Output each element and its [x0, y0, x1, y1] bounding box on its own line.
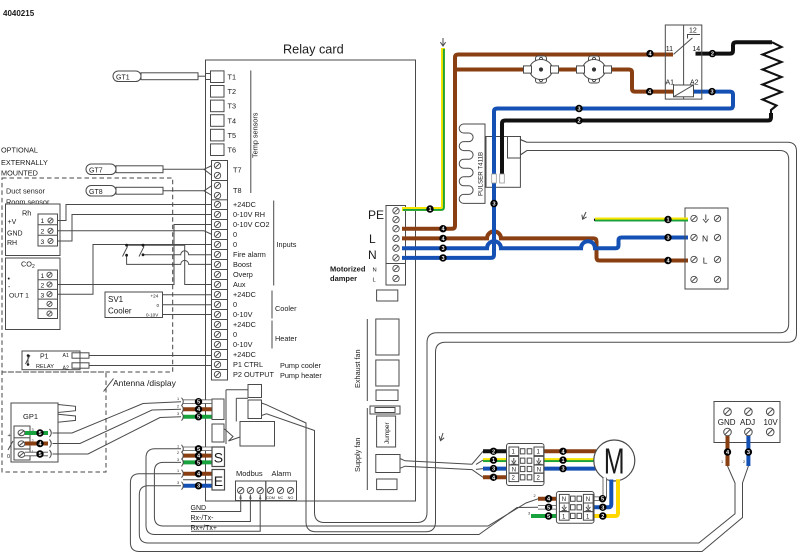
- svg-text:Fire alarm: Fire alarm: [233, 250, 266, 259]
- svg-text:Duct sensor: Duct sensor: [6, 187, 46, 196]
- svg-text:OUT 1: OUT 1: [9, 293, 29, 300]
- svg-text:P2 OUTPUT: P2 OUTPUT: [233, 370, 274, 379]
- svg-text:T5: T5: [228, 131, 237, 140]
- svg-text:+24DC: +24DC: [233, 290, 256, 299]
- svg-text:Aux: Aux: [233, 280, 246, 289]
- svg-text:-: -: [8, 284, 11, 291]
- svg-text:GND: GND: [7, 231, 23, 238]
- svg-text:Pump cooler: Pump cooler: [280, 361, 322, 370]
- svg-text:3: 3: [666, 236, 669, 242]
- svg-text:1: 1: [177, 397, 179, 401]
- svg-text:0-10V CO2: 0-10V CO2: [233, 220, 270, 229]
- svg-text:3: 3: [710, 90, 713, 96]
- svg-text:T7: T7: [233, 166, 242, 175]
- svg-text:0-10V RH: 0-10V RH: [233, 210, 265, 219]
- svg-text:GT8: GT8: [89, 189, 103, 196]
- svg-text:+24DC: +24DC: [233, 200, 256, 209]
- svg-text:3: 3: [492, 202, 495, 208]
- svg-text:RELAY: RELAY: [36, 364, 54, 370]
- svg-text:T1: T1: [228, 73, 237, 82]
- svg-text:3: 3: [528, 512, 530, 516]
- svg-text:Modbus: Modbus: [236, 469, 263, 478]
- svg-text:Pump heater: Pump heater: [280, 371, 322, 380]
- svg-text:3: 3: [197, 484, 200, 490]
- svg-text:2: 2: [577, 119, 580, 125]
- svg-text:Overp: Overp: [233, 270, 253, 279]
- svg-text:2: 2: [743, 460, 745, 464]
- svg-text:12: 12: [689, 28, 697, 35]
- svg-text:MOUNTED: MOUNTED: [1, 169, 38, 178]
- svg-text:Boost: Boost: [233, 260, 252, 269]
- svg-text:0: 0: [157, 303, 160, 308]
- svg-text:A2: A2: [690, 80, 699, 87]
- svg-text:0-10V: 0-10V: [233, 310, 253, 319]
- svg-text:5: 5: [197, 460, 200, 466]
- svg-text:GP1: GP1: [23, 412, 38, 421]
- svg-text:+: +: [8, 433, 11, 439]
- svg-text:damper: damper: [330, 274, 357, 283]
- svg-text:3: 3: [177, 412, 179, 416]
- svg-text:SV1: SV1: [108, 295, 124, 304]
- svg-text:Antenna /display: Antenna /display: [113, 378, 177, 388]
- svg-text:+24DC: +24DC: [233, 350, 256, 359]
- svg-text:0: 0: [233, 300, 237, 309]
- svg-text:T2: T2: [228, 87, 237, 96]
- svg-text:Inputs: Inputs: [277, 240, 297, 249]
- svg-text:1: 1: [177, 444, 179, 448]
- svg-text:2: 2: [601, 514, 604, 520]
- svg-text:A2: A2: [63, 366, 69, 372]
- svg-text:0: 0: [233, 230, 237, 239]
- svg-text:Alarm: Alarm: [272, 469, 292, 478]
- svg-text:Room sensor: Room sensor: [6, 198, 50, 207]
- svg-text:N: N: [562, 497, 566, 503]
- svg-text:1: 1: [721, 460, 723, 464]
- svg-text:2: 2: [534, 494, 536, 498]
- svg-text:3: 3: [177, 458, 179, 462]
- svg-text:Relay card: Relay card: [283, 43, 344, 57]
- svg-text:Heater: Heater: [275, 334, 297, 343]
- svg-text:5: 5: [197, 415, 200, 421]
- svg-text:N: N: [537, 467, 541, 473]
- svg-text:2: 2: [492, 449, 495, 455]
- svg-text:0: 0: [233, 240, 237, 249]
- svg-text:L: L: [703, 256, 708, 266]
- svg-text:P1: P1: [40, 354, 49, 361]
- svg-text:4040215: 4040215: [3, 9, 35, 18]
- svg-text:OPTIONAL: OPTIONAL: [1, 146, 38, 155]
- svg-text:3: 3: [601, 505, 604, 511]
- svg-text:1: 1: [428, 207, 431, 213]
- svg-text:N: N: [512, 467, 516, 473]
- svg-text:PULSER T411B: PULSER T411B: [478, 152, 485, 196]
- svg-text:1: 1: [666, 218, 669, 224]
- svg-text:GND: GND: [191, 505, 207, 512]
- svg-text:Supply fan: Supply fan: [353, 438, 362, 472]
- svg-text:ADJ: ADJ: [740, 418, 755, 427]
- svg-text:•: •: [8, 276, 11, 283]
- svg-text:3: 3: [577, 107, 580, 113]
- svg-text:3: 3: [561, 467, 564, 473]
- svg-text:3: 3: [441, 246, 444, 252]
- svg-text:3: 3: [492, 467, 495, 473]
- svg-text:0-10V: 0-10V: [146, 313, 159, 318]
- svg-text:Motorized: Motorized: [330, 265, 366, 274]
- svg-text:5: 5: [197, 447, 200, 453]
- svg-text:N: N: [702, 234, 708, 244]
- svg-text:2: 2: [41, 283, 45, 290]
- svg-text:1: 1: [561, 458, 564, 464]
- svg-text:P1 CTRL: P1 CTRL: [233, 360, 263, 369]
- svg-text:N: N: [368, 248, 377, 262]
- svg-text:M: M: [604, 441, 625, 482]
- svg-text:0: 0: [7, 454, 10, 460]
- svg-text:+V: +V: [8, 219, 17, 226]
- svg-text:PE: PE: [368, 208, 384, 222]
- svg-text:3: 3: [177, 481, 179, 485]
- svg-text:N: N: [586, 497, 590, 503]
- svg-text:5: 5: [547, 514, 550, 520]
- svg-text:Exhaust fan: Exhaust fan: [353, 349, 362, 388]
- svg-text:1: 1: [41, 218, 45, 225]
- svg-text:2: 2: [711, 52, 714, 58]
- svg-text:2: 2: [41, 229, 45, 236]
- svg-text:11: 11: [666, 46, 673, 53]
- svg-text:GT1: GT1: [116, 75, 130, 82]
- svg-text:T8: T8: [233, 186, 242, 195]
- svg-text:1: 1: [41, 273, 45, 280]
- svg-text:L: L: [373, 278, 377, 284]
- svg-text:S: S: [214, 450, 223, 466]
- svg-text:A1: A1: [63, 353, 69, 359]
- svg-text:3: 3: [747, 450, 750, 456]
- svg-text:NC: NC: [278, 496, 284, 500]
- svg-text:1: 1: [177, 469, 179, 473]
- svg-text:N: N: [373, 268, 377, 274]
- svg-text:GND: GND: [718, 418, 736, 427]
- svg-text:NO: NO: [288, 496, 294, 500]
- svg-text:E: E: [214, 473, 223, 489]
- svg-text:14: 14: [692, 46, 700, 53]
- svg-text:+24DC: +24DC: [233, 320, 256, 329]
- svg-text:0: 0: [233, 330, 237, 339]
- svg-text:COM: COM: [266, 496, 275, 500]
- svg-text:1: 1: [492, 458, 495, 464]
- svg-text:5: 5: [547, 505, 550, 511]
- svg-text:Cooler: Cooler: [275, 304, 297, 313]
- svg-text:T6: T6: [228, 146, 237, 155]
- svg-text:Rx-/Tx-: Rx-/Tx-: [191, 515, 215, 522]
- svg-text:A1: A1: [666, 80, 675, 87]
- svg-text:10V: 10V: [764, 418, 779, 427]
- svg-text:3: 3: [41, 292, 45, 299]
- svg-text:+24: +24: [151, 294, 159, 299]
- svg-text:5: 5: [197, 400, 200, 406]
- svg-text:L: L: [369, 232, 376, 246]
- svg-text:2: 2: [177, 451, 179, 455]
- svg-text:EXTERNALLY: EXTERNALLY: [1, 158, 48, 167]
- svg-text:5: 5: [601, 497, 604, 503]
- svg-text:GT7: GT7: [89, 168, 103, 175]
- svg-text:Cooler: Cooler: [108, 307, 132, 316]
- svg-text:0-10V: 0-10V: [233, 340, 253, 349]
- svg-text:Jumper: Jumper: [384, 421, 391, 444]
- svg-text:RH: RH: [7, 240, 17, 247]
- svg-text:5: 5: [38, 431, 41, 437]
- svg-text:5: 5: [38, 452, 41, 458]
- svg-text:Rh: Rh: [22, 209, 31, 218]
- svg-text:Temp sensors: Temp sensors: [251, 112, 260, 158]
- svg-text:3: 3: [41, 239, 45, 246]
- svg-text:CO2: CO2: [21, 260, 35, 271]
- svg-text:3: 3: [441, 256, 444, 262]
- svg-text:T3: T3: [228, 102, 237, 111]
- svg-text:2: 2: [177, 405, 179, 409]
- svg-text:T4: T4: [228, 117, 237, 126]
